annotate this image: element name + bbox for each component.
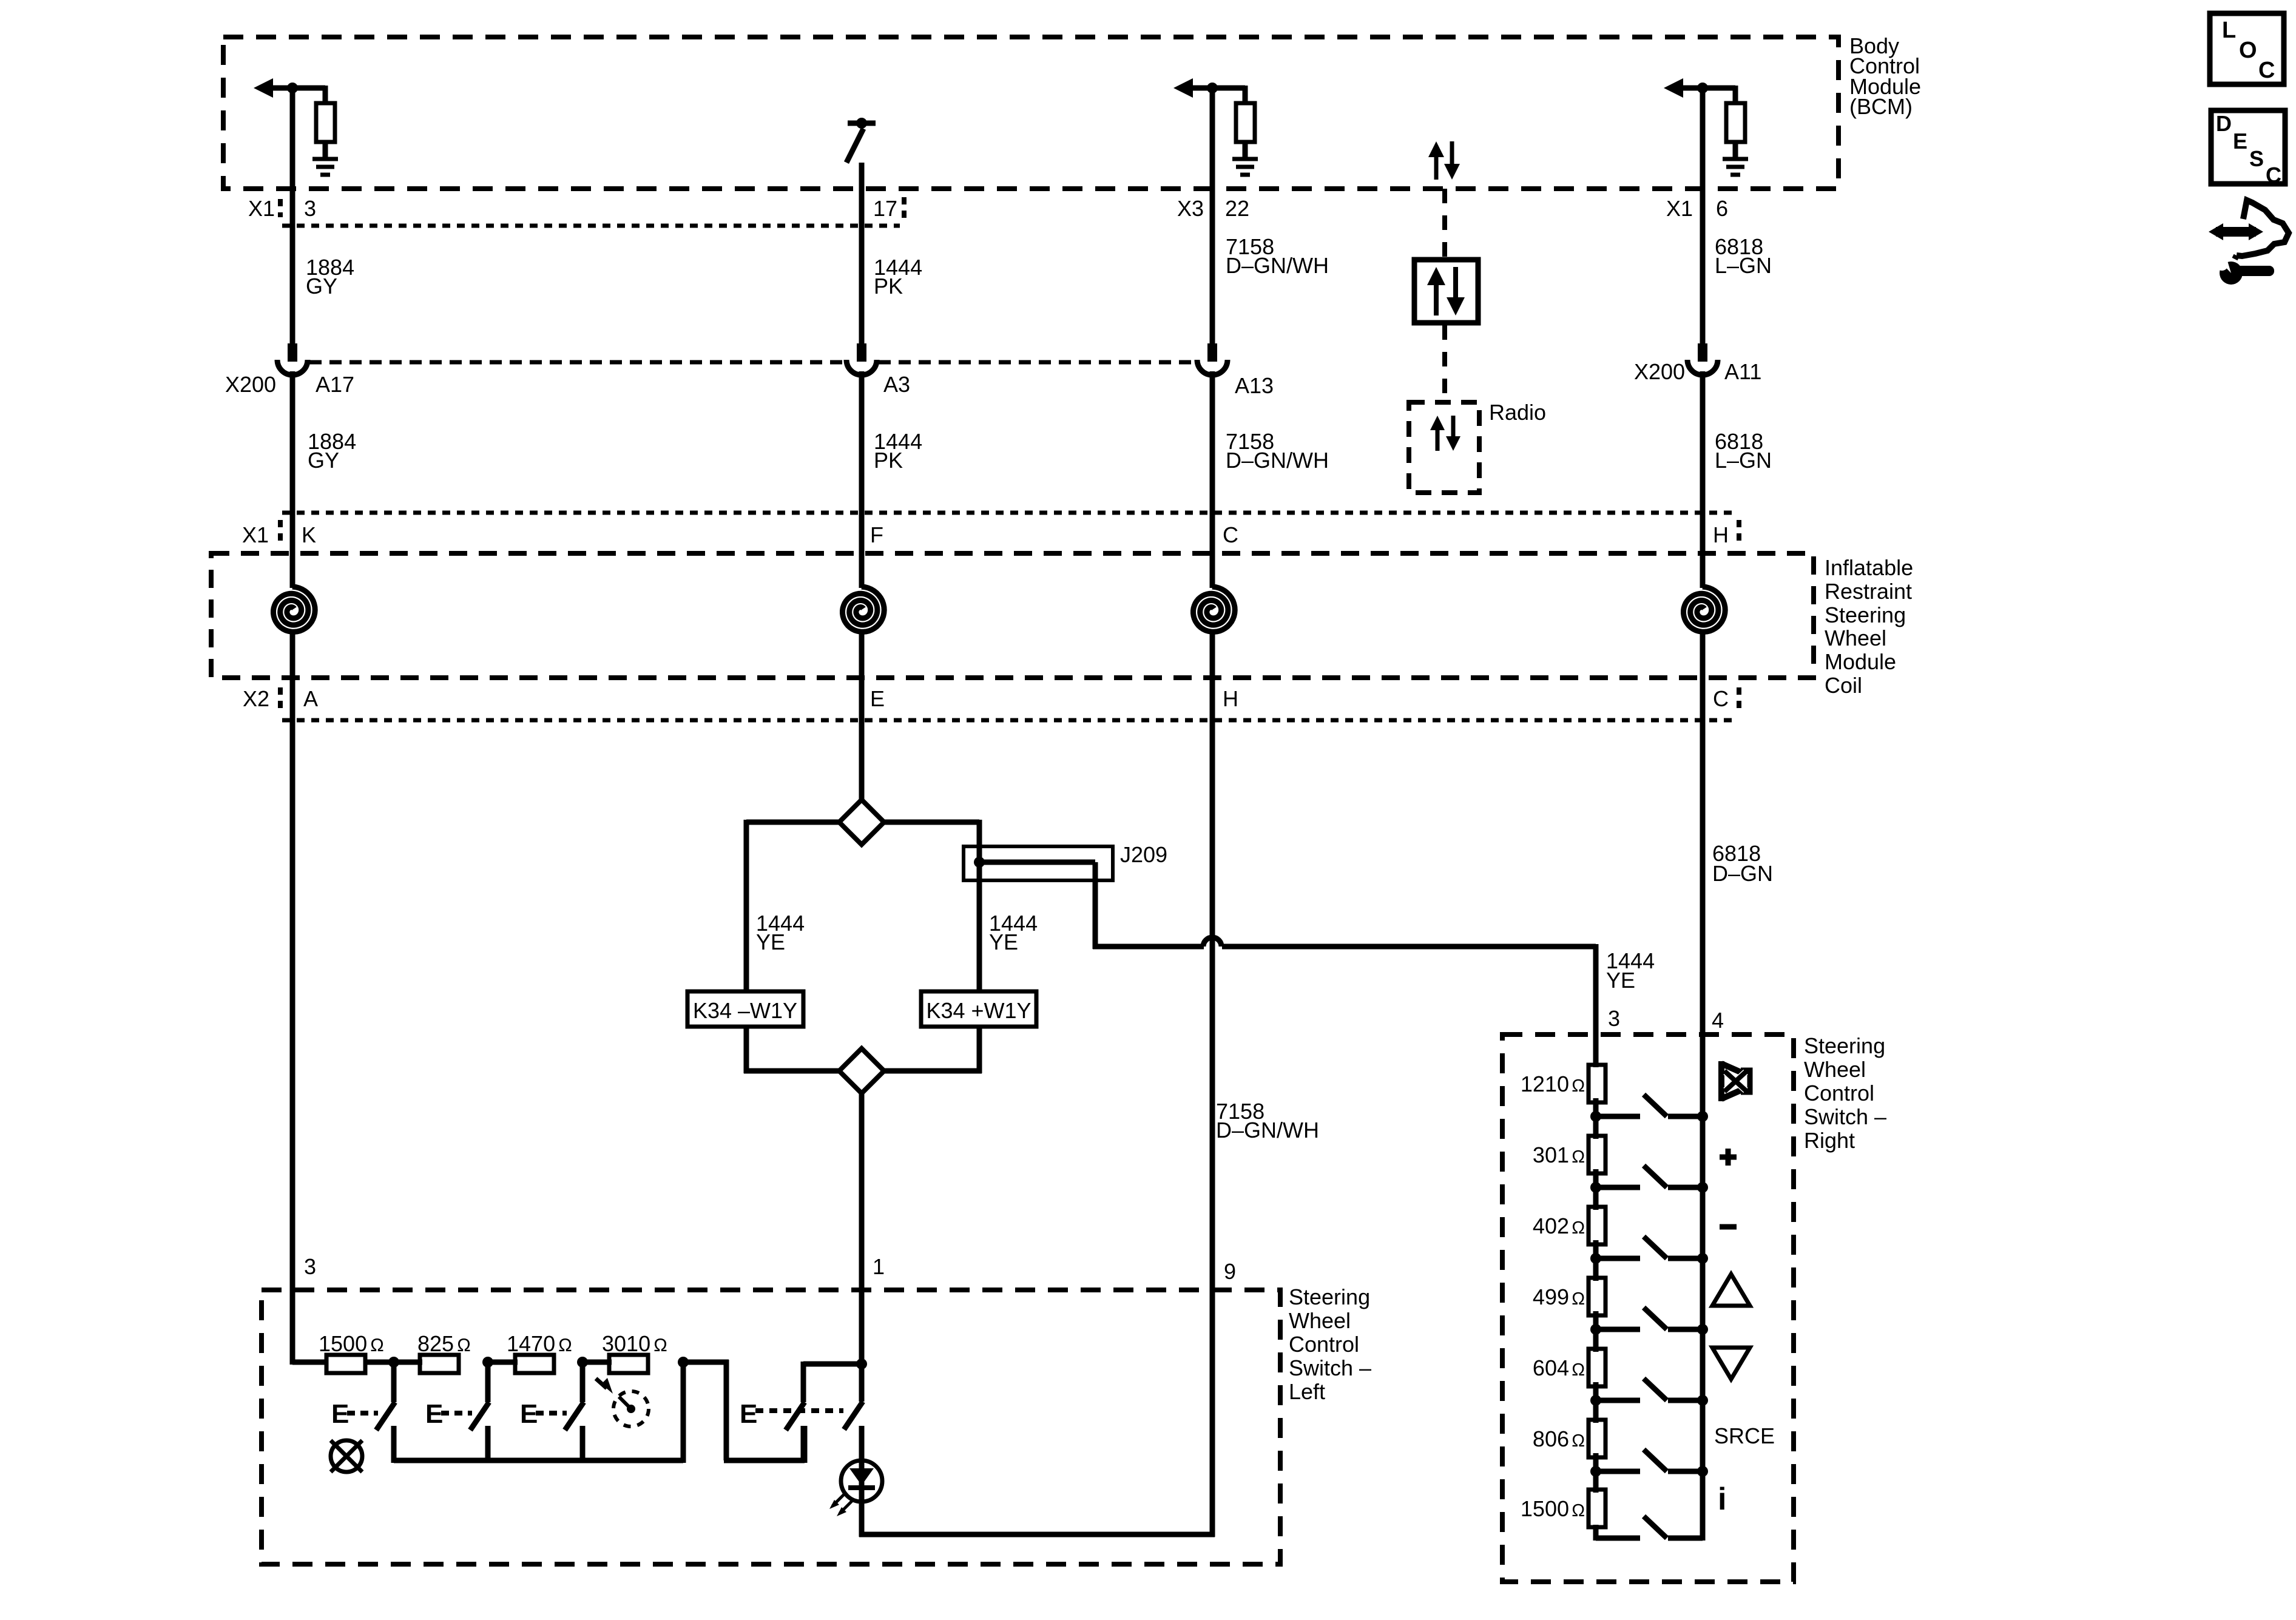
component box K34 +W1Y xyxy=(921,991,1036,1027)
BCM internal switch (wire 2) xyxy=(846,118,876,189)
label X1 (pin row) xyxy=(248,196,275,221)
svg-text:L–GN: L–GN xyxy=(1715,448,1772,473)
label pin 3 (wire 1) xyxy=(304,196,316,221)
label 1444 YE (left branch) xyxy=(756,911,805,954)
wire label 1444 PK (middle) xyxy=(874,429,922,473)
wire into resistor 301 xyxy=(1593,1100,1599,1138)
svg-text:E: E xyxy=(331,1399,349,1429)
label pin A xyxy=(303,686,318,711)
LED symbol (illumination) xyxy=(829,1426,882,1537)
connector X200 dotted line xyxy=(309,360,1193,365)
svg-text:17: 17 xyxy=(873,196,897,221)
label X200 (left) xyxy=(225,372,276,397)
switch row 6 (switch-right) xyxy=(1596,1450,1703,1471)
junction dot 4 (switch-left) xyxy=(678,1357,689,1368)
wire resistor1 feed xyxy=(365,1360,396,1365)
gauge symbol (dimming) xyxy=(596,1378,649,1426)
label: Steering Wheel Control Switch - Right xyxy=(1804,1033,1886,1153)
svg-text:Right: Right xyxy=(1804,1128,1855,1153)
svg-text:K: K xyxy=(302,522,316,547)
wire label 6818 L-GN (middle) xyxy=(1715,429,1772,473)
resistor 1210 ohm (switch-right) xyxy=(1521,1065,1606,1102)
svg-text:PK: PK xyxy=(874,274,903,299)
svg-text:F: F xyxy=(870,522,883,547)
svg-text:GY: GY xyxy=(308,448,339,473)
svg-text:301: 301 xyxy=(1533,1142,1569,1167)
wire label 1884 GY (top) xyxy=(306,255,354,299)
legend box LOC xyxy=(2210,13,2284,84)
svg-text:H: H xyxy=(1713,522,1729,547)
icon info i xyxy=(1718,1482,1726,1517)
wire LED to pin 9 xyxy=(859,1532,1215,1537)
svg-text:E: E xyxy=(740,1399,757,1429)
wire into resistor 402 xyxy=(1593,1171,1599,1209)
svg-text:Steering: Steering xyxy=(1825,602,1906,627)
svg-text:Steering: Steering xyxy=(1289,1284,1370,1309)
switch 6 (switch-left) xyxy=(844,1364,863,1462)
resistor 825 ohm (switch-left) xyxy=(417,1331,471,1373)
svg-text:X2: X2 xyxy=(243,686,269,711)
svg-text:3: 3 xyxy=(1608,1006,1620,1031)
svg-text:Ω: Ω xyxy=(653,1335,667,1355)
svg-text:i: i xyxy=(1718,1482,1726,1517)
resistor 402 ohm (switch-right) xyxy=(1533,1207,1606,1244)
svg-text:A13: A13 xyxy=(1235,373,1274,398)
junction dot left 6 (switch-right) xyxy=(1590,1466,1601,1477)
svg-text:Control: Control xyxy=(1289,1332,1359,1357)
label X3 (pin row) xyxy=(1177,196,1204,221)
wire 2 (bottom diamond to switch-left pin 1) xyxy=(859,1093,865,1366)
svg-text:9: 9 xyxy=(1224,1259,1236,1284)
svg-text:K34 +W1Y: K34 +W1Y xyxy=(926,998,1031,1023)
svg-text:3: 3 xyxy=(304,196,316,221)
J209 splice branch wire xyxy=(977,862,1204,949)
connector X1 row of coil module (dotted) xyxy=(280,513,1739,542)
svg-text:E: E xyxy=(870,686,885,711)
label pin K xyxy=(302,522,316,547)
svg-text:604: 604 xyxy=(1533,1355,1569,1380)
svg-text:C: C xyxy=(1713,686,1729,711)
label A3 xyxy=(883,372,910,397)
svg-text:D–GN/WH: D–GN/WH xyxy=(1226,448,1329,473)
wire label 1884 GY (middle) xyxy=(308,429,356,473)
wire 4 (BCM X1-6 to X200-A11) xyxy=(1700,88,1706,345)
legend box DESC xyxy=(2211,110,2285,187)
svg-text:Module: Module xyxy=(1825,649,1896,674)
svg-text:Wheel: Wheel xyxy=(1825,626,1886,650)
label: Inflatable Restraint Steering Wheel Module Coil xyxy=(1825,555,1913,698)
svg-text:E: E xyxy=(2233,129,2247,154)
serial data dashed wire (box to radio) xyxy=(1442,325,1447,400)
svg-text:YE: YE xyxy=(989,930,1018,954)
wire into resistor 1500 xyxy=(1593,1455,1599,1492)
wire 2 (BCM switch to X200-A3) xyxy=(859,163,865,345)
BCM internal driver with resistor and ground (wire 3) xyxy=(1173,78,1258,175)
svg-text:Wheel: Wheel xyxy=(1289,1308,1351,1333)
label SRCE xyxy=(1714,1423,1775,1448)
icon seek up (triangle) xyxy=(1712,1274,1750,1306)
svg-text:806: 806 xyxy=(1533,1426,1569,1451)
junction dot left 1 (switch-right) xyxy=(1590,1111,1601,1122)
svg-text:Left: Left xyxy=(1289,1379,1325,1404)
svg-text:Ω: Ω xyxy=(370,1335,384,1355)
junction dot left 3 (switch-right) xyxy=(1590,1253,1601,1264)
junction dot left 2 (switch-right) xyxy=(1590,1182,1601,1193)
junction dot right 2 (switch-right) xyxy=(1697,1182,1708,1193)
wire chain segment 0 xyxy=(1593,1098,1599,1139)
switch row 2 (switch-right) xyxy=(1596,1166,1703,1187)
label pin 22 (wire 3) xyxy=(1225,196,1249,221)
svg-text:D–GN/WH: D–GN/WH xyxy=(1226,253,1329,278)
svg-text:YE: YE xyxy=(756,930,785,954)
wire 3 (coil to switch-left pin 9) xyxy=(1210,634,1215,1537)
wire 1 (BCM X1-3 to X200-A17) xyxy=(290,88,295,345)
junction dot 1 (switch-left) xyxy=(388,1357,399,1368)
svg-text:X1: X1 xyxy=(242,522,269,547)
svg-text:Ω: Ω xyxy=(558,1335,572,1355)
serial data arrows inside BCM xyxy=(1428,141,1460,180)
label pin 1 (switch-left) xyxy=(873,1254,885,1279)
label pin 9 (switch-left) xyxy=(1224,1259,1236,1284)
legend icon double arrow xyxy=(2209,223,2263,240)
switch 2 (switch-left) xyxy=(470,1362,489,1463)
svg-text:Ω: Ω xyxy=(1572,1501,1585,1520)
svg-text:X200: X200 xyxy=(225,372,276,397)
wire switch4 branch (direct) xyxy=(681,1362,686,1463)
junction dot left 5 (switch-right) xyxy=(1590,1395,1601,1406)
wire segment bus after junction 1 xyxy=(391,1360,422,1365)
svg-text:Radio: Radio xyxy=(1489,400,1546,425)
junction dot right 4 (switch-right) xyxy=(1697,1324,1708,1335)
svg-text:Ω: Ω xyxy=(457,1335,471,1355)
svg-text:Ω: Ω xyxy=(1572,1218,1585,1238)
label pin C (top coil row) xyxy=(1223,522,1238,547)
switch row 5 (switch-right) xyxy=(1596,1379,1703,1400)
svg-text:Wheel: Wheel xyxy=(1804,1057,1866,1082)
wire segment bus after junction 4 xyxy=(680,1360,729,1365)
wire label 7158 D-GN/WH (top) xyxy=(1226,234,1329,278)
wire label 7158 D-GN/WH (middle) xyxy=(1226,429,1329,473)
zigzag wire from junction 4 to switch 5 xyxy=(680,1360,805,1463)
resistor 301 ohm (switch-right) xyxy=(1533,1136,1606,1173)
wire segment bus after junction 3 xyxy=(579,1360,612,1365)
actuator E1 linkage xyxy=(331,1399,378,1429)
svg-text:Switch –: Switch – xyxy=(1289,1355,1371,1380)
label Radio xyxy=(1489,400,1546,425)
wire 3 (BCM X3-22 to X200-A13) xyxy=(1210,88,1215,345)
wire 1 (X200-A17 to coil) xyxy=(290,371,295,588)
svg-text:825: 825 xyxy=(417,1331,454,1356)
svg-text:1500: 1500 xyxy=(319,1331,367,1356)
svg-text:X1: X1 xyxy=(248,196,275,221)
svg-text:A17: A17 xyxy=(316,372,354,397)
junction dot J209 xyxy=(974,857,985,868)
label pin F xyxy=(870,522,883,547)
switch row 1 (switch-right) xyxy=(1596,1095,1703,1116)
coil (clockspring) symbol on wire at x=1420 xyxy=(843,587,885,632)
svg-text:A3: A3 xyxy=(883,372,910,397)
wire 2 (X200-A3 to coil) xyxy=(859,371,865,588)
label: Steering Wheel Control Switch - Left xyxy=(1289,1284,1371,1404)
resistor 3010 ohm (switch-left) xyxy=(602,1331,667,1373)
junction dot right 1 (switch-right) xyxy=(1697,1111,1708,1122)
wire 1 (coil to switch-left pin 3) xyxy=(290,634,295,1365)
wire below last resistor xyxy=(1593,1525,1599,1541)
svg-text:Control: Control xyxy=(1804,1081,1874,1105)
serial data dashed wire (BCM to box) xyxy=(1442,189,1447,257)
BCM internal driver with resistor and ground (wire 1) xyxy=(254,78,338,175)
module box: Inflatable Restraint Steering Wheel Module Coil xyxy=(211,553,1814,678)
switch 5 (switch-left) xyxy=(786,1362,864,1463)
svg-text:PK: PK xyxy=(874,448,903,473)
coil (clockspring) symbol on wire at x=1998 xyxy=(1194,587,1235,632)
label pin 3 (switch-right) xyxy=(1608,1006,1620,1031)
junction dot right 3 (switch-right) xyxy=(1697,1253,1708,1264)
connector terminal X200-A13 (wire 3) xyxy=(1197,343,1227,375)
resistor 806 ohm (switch-right) xyxy=(1533,1420,1606,1457)
resistor 1500 ohm (switch-left) xyxy=(319,1331,384,1373)
wire chain segment 4 xyxy=(1593,1382,1599,1423)
svg-text:E: E xyxy=(520,1399,538,1429)
wire 3 (X200-A13 to coil) xyxy=(1210,371,1215,588)
svg-text:A11: A11 xyxy=(1724,359,1761,384)
label pin 17 (wire 2) xyxy=(873,196,897,221)
wire into resistor 604 xyxy=(1593,1313,1599,1351)
svg-text:Ω: Ω xyxy=(1572,1076,1585,1096)
svg-text:J209: J209 xyxy=(1120,842,1167,867)
svg-text:1210: 1210 xyxy=(1521,1072,1569,1096)
actuator E linkage (switch 5/6) xyxy=(740,1399,843,1429)
module box: Body Control Module (BCM) xyxy=(223,37,1838,189)
label 1444 YE (right branch) xyxy=(989,911,1038,954)
svg-text:GY: GY xyxy=(306,274,337,299)
wire through J209 xyxy=(977,849,982,994)
label pin 6 (wire 4) xyxy=(1716,196,1728,221)
wire K34+W1Y to bottom diamond xyxy=(884,1027,982,1073)
svg-text:Restraint: Restraint xyxy=(1825,579,1912,604)
junction dot pin1 (switch-left) xyxy=(856,1358,867,1369)
splice diamond (top) xyxy=(839,800,884,845)
wire chain segment 5 xyxy=(1593,1453,1599,1493)
wire into resistor 1210 xyxy=(1593,1034,1599,1067)
component box K34 -W1Y xyxy=(687,991,803,1027)
svg-text:D–GN/WH: D–GN/WH xyxy=(1216,1118,1319,1142)
actuator E2 linkage xyxy=(425,1399,472,1429)
wire chain segment 1 xyxy=(1593,1169,1599,1210)
label A13 xyxy=(1235,373,1274,398)
svg-text:D–GN: D–GN xyxy=(1712,861,1773,886)
junction dot 3 (switch-left) xyxy=(577,1357,588,1368)
junction dot right 6 (switch-right) xyxy=(1697,1466,1708,1477)
svg-text:X200: X200 xyxy=(1634,359,1685,384)
wire label 1444 PK (top) xyxy=(874,255,922,299)
label X2 (coil row) xyxy=(243,686,269,711)
icon volume - xyxy=(1720,1224,1737,1230)
label pin E xyxy=(870,686,885,711)
label pin H (top coil row) xyxy=(1713,522,1729,547)
wire label 6818 L-GN (top) xyxy=(1715,234,1772,278)
label: Body Control Module (BCM) xyxy=(1849,33,1921,119)
legend icon repair outline xyxy=(2235,200,2289,259)
svg-text:499: 499 xyxy=(1533,1284,1569,1309)
connector X1 pin17 dotted tick xyxy=(902,197,907,220)
wire chain segment 2 xyxy=(1593,1240,1599,1281)
svg-text:Steering: Steering xyxy=(1804,1033,1885,1058)
connector terminal X200-A3 (wire 2) xyxy=(846,343,877,375)
resistor 604 ohm (switch-right) xyxy=(1533,1349,1606,1386)
switch 3 (switch-left) xyxy=(565,1362,584,1463)
wire K34-W1Y to bottom diamond xyxy=(744,1027,839,1073)
label pin 4 (switch-right) xyxy=(1712,1008,1724,1033)
resistor 1470 ohm (switch-left) xyxy=(507,1331,572,1373)
svg-text:C: C xyxy=(2266,163,2281,187)
wire segment bus after junction 2 xyxy=(485,1360,518,1365)
wire label 6818 D-GN xyxy=(1712,841,1773,886)
svg-text:L: L xyxy=(2222,18,2236,43)
svg-text:O: O xyxy=(2239,38,2257,63)
svg-text:3: 3 xyxy=(304,1254,316,1279)
svg-text:Ω: Ω xyxy=(1572,1360,1585,1380)
svg-text:C: C xyxy=(1223,522,1238,547)
svg-text:C: C xyxy=(2258,58,2275,83)
BCM internal driver with resistor and ground (wire 4) xyxy=(1664,78,1748,175)
wire hop over wire 3 xyxy=(1203,937,1596,947)
svg-text:X3: X3 xyxy=(1177,196,1204,221)
lamp symbol (backlight) xyxy=(331,1440,362,1472)
bottom bus (switches 1-4) xyxy=(394,1458,683,1463)
svg-text:D: D xyxy=(2216,111,2232,136)
wire from top diamond to left branch xyxy=(746,820,839,994)
label pin 3 (switch-left) xyxy=(304,1254,316,1279)
resistor 1500 ohm (switch-right) xyxy=(1521,1490,1606,1527)
svg-text:Switch –: Switch – xyxy=(1804,1104,1886,1129)
svg-text:L–GN: L–GN xyxy=(1715,253,1772,278)
svg-text:E: E xyxy=(425,1399,443,1429)
svg-text:1500: 1500 xyxy=(1521,1496,1569,1521)
bottom switch row (switch-right) xyxy=(1596,1516,1703,1538)
module box: Steering Wheel Control Switch - Left xyxy=(262,1290,1280,1564)
splice diamond (bottom) xyxy=(839,1048,884,1093)
wire chain segment 3 xyxy=(1593,1311,1599,1352)
wire down to switch-right pin 3 xyxy=(1593,944,1599,1067)
junction dot left 4 (switch-right) xyxy=(1590,1324,1601,1335)
label pin H (bottom coil row) xyxy=(1223,686,1238,711)
wire into resistor 499 xyxy=(1593,1242,1599,1280)
label X1 (right pin row) xyxy=(1666,196,1693,221)
coil (clockspring) symbol on wire at x=482 xyxy=(274,587,316,632)
label A17 xyxy=(316,372,354,397)
icon mute (speaker with X) xyxy=(1718,1061,1750,1101)
label A11 xyxy=(1724,359,1761,384)
resistor 499 ohm (switch-right) xyxy=(1533,1278,1606,1315)
svg-text:4: 4 xyxy=(1712,1008,1724,1033)
radio internal arrows xyxy=(1430,416,1460,451)
svg-text:K34 –W1Y: K34 –W1Y xyxy=(693,998,797,1023)
wire pin3 chain (switch-right) xyxy=(1593,1065,1599,1067)
svg-text:X1: X1 xyxy=(1666,196,1693,221)
svg-text:Ω: Ω xyxy=(1572,1431,1585,1451)
serial data box with arrows xyxy=(1414,260,1478,323)
svg-text:SRCE: SRCE xyxy=(1714,1423,1775,1448)
svg-text:6: 6 xyxy=(1716,196,1728,221)
connector J209 xyxy=(964,846,1113,880)
svg-text:H: H xyxy=(1223,686,1238,711)
wire 4 (coil to switch-right pin 4) xyxy=(1700,634,1706,1541)
module box: Steering Wheel Control Switch - Right xyxy=(1502,1034,1794,1582)
svg-text:1470: 1470 xyxy=(507,1331,555,1356)
switch row 4 (switch-right) xyxy=(1596,1308,1703,1329)
svg-text:Coil: Coil xyxy=(1825,673,1862,698)
junction dot 2 (switch-left) xyxy=(482,1357,493,1368)
svg-text:Ω: Ω xyxy=(1572,1289,1585,1309)
connector terminal X200-A17 (wire 1) xyxy=(277,343,308,375)
icon seek down (triangle) xyxy=(1712,1348,1750,1379)
coil (clockspring) symbol on wire at x=2806 xyxy=(1684,587,1726,632)
wire from top diamond to right branch xyxy=(884,820,979,849)
connector X2 row of coil module (dotted) xyxy=(280,687,1739,720)
switch row 3 (switch-right) xyxy=(1596,1237,1703,1258)
junction dot right 5 (switch-right) xyxy=(1697,1395,1708,1406)
svg-text:Inflatable: Inflatable xyxy=(1825,555,1913,580)
wire 4 (X200-A11 to coil) xyxy=(1700,371,1706,588)
svg-text:YE: YE xyxy=(1606,968,1635,993)
label J209 xyxy=(1120,842,1167,867)
icon volume + xyxy=(1720,1149,1737,1166)
actuator E3 linkage xyxy=(520,1399,567,1429)
label X200 (right) xyxy=(1634,359,1685,384)
label 1444 YE (to switch-right) xyxy=(1606,948,1655,993)
label X1 (coil row) xyxy=(242,522,269,547)
svg-text:(BCM): (BCM) xyxy=(1849,94,1913,119)
svg-text:S: S xyxy=(2249,146,2264,171)
svg-text:402: 402 xyxy=(1533,1213,1569,1238)
connector X1 pin 3 row (dotted) xyxy=(280,199,900,226)
svg-text:22: 22 xyxy=(1225,196,1249,221)
wire into resistor 806 xyxy=(1593,1384,1599,1422)
wire 2 (coil to top diamond) xyxy=(859,634,865,802)
switch 1 (switch-left) xyxy=(376,1362,395,1463)
module box: Radio xyxy=(1409,402,1479,493)
svg-text:Ω: Ω xyxy=(1572,1147,1585,1167)
wire pin3 corner to resistor chain xyxy=(292,1360,328,1365)
wire label 7158 D-GN/WH (lower) xyxy=(1216,1099,1319,1142)
label pin C (bottom coil row) xyxy=(1713,686,1729,711)
legend icon wrench xyxy=(2216,255,2274,285)
svg-text:3010: 3010 xyxy=(602,1331,650,1356)
svg-text:A: A xyxy=(303,686,318,711)
svg-text:1: 1 xyxy=(873,1254,885,1279)
connector terminal X200-A11 (wire 4) xyxy=(1687,343,1718,375)
